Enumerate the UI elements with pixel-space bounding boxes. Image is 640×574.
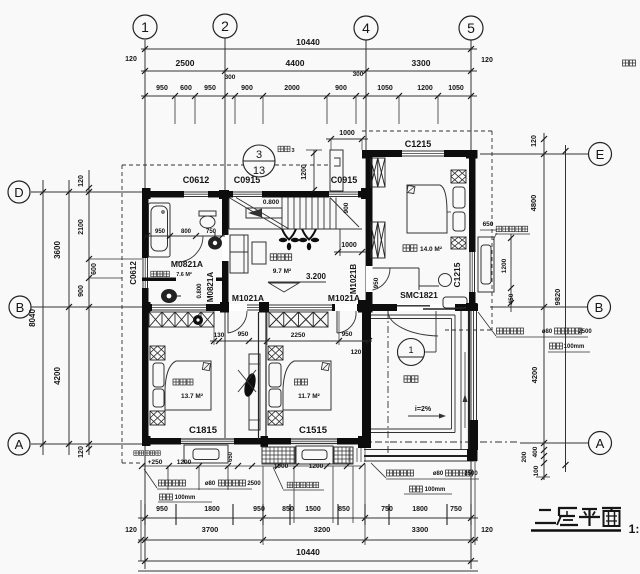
svg-text:ø80: ø80 (542, 329, 553, 335)
living room label (270, 254, 292, 260)
axis line E horizontal (480, 153, 588, 155)
flue duct (330, 150, 343, 191)
bathroom east wall (222, 197, 229, 304)
svg-text:850: 850 (338, 506, 350, 513)
axis line A-left horizontal (31, 443, 150, 445)
wash basin (208, 237, 222, 250)
svg-text:600: 600 (180, 85, 192, 92)
dim line left overall 8040 (42, 180, 44, 455)
svg-text:2500: 2500 (247, 481, 261, 487)
svg-text:3.200: 3.200 (306, 272, 327, 281)
doors M1021A arcs (227, 311, 229, 333)
dim line bottom overall 10440 (138, 560, 478, 562)
ac drill note terrace (387, 470, 414, 476)
svg-text:1200: 1200 (417, 85, 433, 92)
svg-text:1200: 1200 (301, 164, 308, 180)
bedside table top (451, 170, 466, 183)
axis line D horizontal (31, 191, 150, 193)
flower box grille 2 (333, 447, 335, 464)
door opening M0821A in bathroom east wall (222, 235, 229, 261)
cabinet (230, 235, 248, 273)
svg-text:100mm: 100mm (564, 344, 585, 350)
svg-text:i=2%: i=2% (415, 406, 432, 413)
axis bubble 4 (354, 16, 378, 40)
svg-text:4400: 4400 (286, 58, 305, 68)
ceiling fan symbol 2 (299, 229, 319, 250)
axis line 5 vertical (470, 40, 472, 569)
bathroom door arc (177, 236, 203, 262)
svg-text:850: 850 (282, 506, 294, 513)
bedside table bottom (451, 237, 466, 249)
svg-text:9.7 M²: 9.7 M² (273, 268, 292, 275)
axis line 4 vertical (365, 40, 367, 311)
title er ceng ping mian (539, 509, 551, 511)
svg-text:13.7 M²: 13.7 M² (181, 393, 204, 400)
svg-text:300: 300 (353, 71, 364, 78)
svg-text:1050: 1050 (377, 85, 393, 92)
window C0612 in top wall (184, 191, 208, 198)
svg-text:+250: +250 (148, 459, 163, 466)
terrace corner blocks (466, 303, 478, 311)
svg-text:950: 950 (156, 506, 168, 513)
svg-text:A: A (596, 436, 605, 451)
bed pillow square (407, 185, 415, 193)
ac platform center (296, 446, 333, 464)
svg-text:120: 120 (78, 446, 85, 458)
wall corner blocks (142, 188, 151, 199)
bedside tables master (150, 346, 165, 360)
svg-text:E: E (596, 147, 605, 162)
stair treads (281, 198, 283, 230)
terrace bottom parapet (364, 449, 477, 451)
window C1815 in bottom wall (181, 438, 234, 445)
table (252, 242, 266, 264)
wardrobe bedroom1 (149, 312, 214, 327)
extension lines top (174, 96, 176, 124)
bedroom label (403, 245, 417, 252)
stair break diagonals (229, 198, 282, 230)
svg-text:A: A (15, 437, 24, 452)
window C1215 in right wall (469, 252, 476, 292)
svg-text:0.800: 0.800 (263, 199, 280, 206)
svg-text:2000: 2000 (284, 85, 300, 92)
terrace floor inner lines (371, 314, 455, 316)
bed 2 (283, 361, 331, 410)
axis bubble A-right (589, 432, 612, 455)
wall offset note right (550, 343, 563, 349)
svg-text:ø80: ø80 (433, 471, 444, 477)
svg-text:1500: 1500 (305, 506, 321, 513)
svg-text:10440: 10440 (296, 37, 320, 47)
svg-text:9820: 9820 (553, 289, 562, 306)
dresser with mirror (249, 354, 260, 430)
closet flower symbol (193, 315, 203, 325)
door M1021B arc (373, 267, 391, 269)
dim line left detail (88, 170, 90, 455)
window C1515 in bottom wall (291, 438, 337, 445)
dim line right inner (543, 133, 545, 480)
terrace right parapet (460, 311, 462, 450)
svg-text:1200: 1200 (501, 258, 508, 273)
top wall with windows (142, 191, 372, 198)
flower box grille 1 (261, 447, 263, 464)
bottom wall (142, 438, 371, 445)
svg-text:100: 100 (533, 465, 540, 476)
stair up arrow box (246, 208, 282, 218)
svg-text:750: 750 (450, 506, 462, 513)
svg-text:950: 950 (156, 85, 168, 92)
extension lines bottom (140, 500, 142, 561)
bathtub (149, 203, 171, 257)
ac drill note left (159, 480, 186, 486)
svg-text:1800: 1800 (412, 506, 428, 513)
svg-text:2: 2 (221, 18, 229, 34)
axis bubble A-left (8, 433, 30, 455)
door opening M1021A-1 (222, 304, 259, 311)
axis bubble E (589, 143, 612, 166)
svg-text:950: 950 (342, 331, 353, 338)
svg-text:1000: 1000 (274, 463, 289, 470)
pillows 2 (269, 363, 281, 387)
svg-text:120: 120 (125, 527, 137, 534)
laundry basin (161, 289, 177, 303)
svg-text:950: 950 (238, 331, 249, 338)
bathroom partition wall (142, 278, 176, 282)
svg-text:130: 130 (214, 332, 225, 339)
svg-text:900: 900 (78, 285, 85, 297)
dim line bottom detail (138, 517, 478, 519)
svg-text:ø80: ø80 (205, 481, 216, 487)
svg-text:SMC1821: SMC1821 (400, 290, 438, 300)
axis bubble 1 (133, 15, 157, 39)
svg-text:8040: 8040 (28, 309, 37, 327)
svg-text:1800: 1800 (204, 506, 220, 513)
door opening SMC1821 sliding (397, 304, 455, 311)
svg-text:950: 950 (373, 277, 380, 288)
wardrobe bottom (371, 222, 386, 258)
axis-B wall (142, 304, 478, 311)
svg-text:120: 120 (481, 527, 493, 534)
svg-text:120: 120 (531, 135, 538, 147)
ac platform left (184, 445, 228, 463)
wall offset note terrace (410, 486, 423, 492)
svg-text:1200: 1200 (309, 463, 324, 470)
dim 1200 vertical near flue (313, 150, 315, 192)
dim line bottom spans (138, 539, 478, 541)
svg-text:3: 3 (291, 148, 294, 154)
bathroom dim line (145, 235, 225, 237)
title underline (531, 529, 621, 532)
svg-text:120: 120 (78, 175, 85, 187)
terrace west wall (362, 311, 371, 445)
bathroom label (151, 271, 170, 277)
ac outdoor unit right (478, 237, 494, 292)
pillows master (153, 363, 164, 387)
svg-text:200: 200 (521, 451, 528, 462)
bed master pillow square (202, 363, 210, 371)
door knob circle (439, 274, 452, 287)
terrace dashed centerline (387, 311, 389, 455)
svg-text:1200: 1200 (177, 459, 192, 466)
svg-text:400: 400 (532, 446, 539, 457)
svg-text:M1021B: M1021B (349, 264, 358, 294)
ac note right top (496, 226, 528, 232)
pillows (453, 187, 465, 208)
dim line top detail (141, 95, 477, 97)
svg-text:C1815: C1815 (189, 425, 218, 436)
svg-text:900: 900 (343, 202, 350, 213)
svg-text:2500: 2500 (578, 329, 592, 335)
svg-text:650: 650 (483, 221, 494, 228)
svg-text:3700: 3700 (202, 525, 219, 534)
svg-text:1050: 1050 (448, 85, 464, 92)
bed master (165, 361, 211, 410)
axis line 2 vertical (224, 38, 226, 444)
svg-text:10440: 10440 (296, 547, 320, 557)
window band over laundry (152, 304, 206, 311)
door opening M1021A-2 (335, 304, 357, 311)
svg-text:1: 1 (141, 19, 149, 35)
ceiling fan symbol 1 (279, 229, 299, 250)
bedroom top wall (364, 150, 477, 157)
svg-text:2250: 2250 (291, 332, 306, 339)
svg-text:3: 3 (256, 149, 262, 161)
svg-text:4: 4 (362, 20, 370, 36)
svg-text:3300: 3300 (412, 525, 429, 534)
svg-text:750: 750 (381, 506, 393, 513)
svg-text:D: D (14, 185, 23, 200)
bedroom interior dim (210, 340, 372, 342)
svg-text:4200: 4200 (53, 367, 62, 385)
svg-text:2100: 2100 (78, 219, 85, 235)
ac note tiny left (134, 451, 161, 456)
svg-text:7.6 M²: 7.6 M² (176, 271, 192, 278)
right dim connectors (536, 153, 572, 155)
svg-text:3300: 3300 (412, 58, 431, 68)
svg-text:M0821A: M0821A (171, 259, 203, 269)
dim line top spans (141, 70, 477, 72)
svg-text:5: 5 (467, 20, 475, 36)
closet partition (418, 268, 420, 290)
window C1215 in bedroom top wall (402, 150, 444, 157)
svg-text:900: 900 (335, 85, 347, 92)
ac dim line bottom (142, 465, 362, 467)
svg-text:C1215: C1215 (405, 139, 432, 149)
indoor unit bench (443, 297, 467, 308)
svg-text:600: 600 (91, 263, 98, 275)
axis line A-right dashdot (360, 441, 520, 443)
dashed eave outline left part (122, 164, 243, 166)
svg-text:2500: 2500 (464, 471, 478, 477)
svg-text:750: 750 (206, 229, 217, 235)
svg-text:C0915: C0915 (234, 175, 261, 185)
flue dim 1000 (326, 138, 368, 140)
axis line 1 vertical (144, 40, 146, 569)
svg-text:3200: 3200 (314, 525, 331, 534)
svg-text:4200: 4200 (530, 367, 539, 384)
terrace drain arrow (464, 352, 466, 428)
bedroom west wall (366, 157, 373, 311)
svg-text:800: 800 (181, 229, 192, 235)
terrace label (404, 376, 418, 383)
terrace section line (435, 311, 437, 352)
svg-text:C1215: C1215 (452, 262, 462, 287)
right outer wall upper (469, 150, 476, 311)
window C0612 in left wall (142, 258, 149, 288)
dashed line through detail bubble (275, 164, 330, 166)
ac drill note right (497, 328, 524, 334)
terrace door arc (388, 311, 438, 336)
stair outline (229, 228, 362, 230)
window band over wardrobe2 (268, 304, 332, 311)
svg-text:M0821A: M0821A (206, 272, 215, 302)
svg-text:950: 950 (155, 229, 166, 235)
svg-text:C0915: C0915 (331, 175, 358, 185)
bedside tables 2 (268, 346, 283, 360)
svg-text:B: B (16, 300, 25, 315)
svg-text:1:: 1: (629, 522, 640, 536)
stair dim 1000 (334, 251, 366, 253)
dashed eave outline bedroom (362, 130, 492, 132)
dim line right overall 9820 (565, 145, 567, 472)
hatch under terrace corner (348, 448, 350, 462)
label mianzhuan3 (278, 146, 290, 152)
wardrobe bedroom2 (269, 312, 328, 327)
toilet (199, 211, 216, 216)
svg-text:650: 650 (228, 451, 234, 462)
axis bubble B-right (588, 296, 611, 319)
svg-text:14.0 M²: 14.0 M² (420, 246, 443, 253)
svg-text:C0612: C0612 (129, 261, 138, 285)
svg-text:450: 450 (508, 293, 515, 304)
svg-text:M1021A: M1021A (232, 293, 264, 303)
detail bubble 3/13 (243, 145, 275, 177)
bed (407, 185, 447, 233)
svg-text:3600: 3600 (53, 241, 62, 259)
wardrobe top (371, 158, 386, 187)
svg-text:1: 1 (408, 345, 413, 355)
bedroom divider wall (258, 312, 260, 440)
wall offset note left (160, 494, 173, 500)
axis bubble 5 (459, 16, 483, 40)
window C0915 in top wall (233, 191, 262, 198)
svg-text:4800: 4800 (529, 195, 538, 212)
svg-text:100mm: 100mm (425, 487, 446, 493)
tiny note top right corner (623, 60, 636, 66)
master bedroom label (173, 379, 193, 385)
svg-text:120: 120 (481, 57, 493, 64)
left outer wall (142, 191, 149, 444)
bedroom 2 label (295, 379, 308, 385)
svg-text:120: 120 (125, 56, 137, 63)
axis bubble D (8, 181, 30, 203)
svg-text:1000: 1000 (339, 130, 355, 137)
svg-text:900: 900 (241, 85, 253, 92)
ac note center (287, 482, 319, 488)
svg-text:11.7 M²: 11.7 M² (298, 393, 321, 400)
svg-text:100mm: 100mm (175, 495, 196, 501)
axis bubble B-left (9, 296, 31, 318)
dim line left spans (68, 180, 70, 455)
svg-text:120: 120 (351, 349, 362, 356)
terrace detail bubble 1 (398, 339, 425, 366)
svg-text:950: 950 (204, 85, 216, 92)
axis line B-right horizontal (490, 306, 587, 308)
svg-text:C0612: C0612 (183, 175, 210, 185)
level marker 3.200 (268, 281, 326, 283)
door opening M1021B in bedroom west wall (366, 266, 373, 292)
axis line B-left horizontal (31, 306, 150, 308)
extension lines left (89, 258, 142, 260)
svg-text:1000: 1000 (341, 242, 357, 249)
bed 2 pillow square (321, 363, 329, 371)
window C0915b in top wall (329, 191, 358, 198)
svg-text:C1515: C1515 (299, 425, 328, 436)
svg-text:0.800: 0.800 (197, 283, 203, 299)
svg-text:2500: 2500 (176, 58, 195, 68)
svg-text:B: B (595, 300, 604, 315)
ac dim right (510, 234, 512, 312)
svg-text:300: 300 (225, 74, 236, 81)
dim line top overall 10440 (141, 48, 477, 50)
axis bubble 2 (213, 14, 237, 38)
